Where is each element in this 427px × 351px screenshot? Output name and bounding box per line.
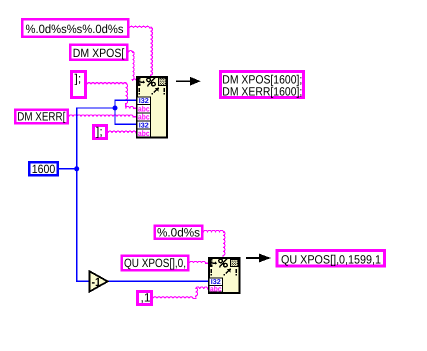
box border [155, 226, 203, 239]
svg-text:abc: abc [138, 129, 150, 138]
box border [22, 19, 128, 37]
wire: blue vertical at node [114, 100, 116, 125]
svg-text:abc: abc [210, 285, 222, 294]
U2 icon: diagonal resize arrow [223, 269, 231, 276]
svg-text:abc: abc [138, 113, 150, 122]
U2 icon: percent sign [219, 259, 227, 268]
wire: 1600 out [59, 168, 77, 170]
svg-text:%.0d%s: %.0d%s [157, 225, 200, 239]
wire: main vertical blue [76, 108, 78, 282]
U1 icon: document-with-arrow glyph [138, 78, 145, 86]
U1: terminal column [137, 97, 151, 137]
svg-text:QU XPOS[],0,1599,1: QU XPOS[],0,1599,1 [281, 253, 381, 267]
U2 icon: right exclamation [235, 269, 237, 276]
svg-text:%.0d%s%s%.0d%s: %.0d%s%s%.0d%s [26, 22, 124, 36]
box border [29, 162, 58, 175]
wire: %.0d%s to node top (vertical) [223, 231, 225, 257]
wire: DM XPOS out (horizontal) [129, 51, 135, 53]
svg-text:DM XPOS[: DM XPOS[ [73, 46, 125, 60]
wire: ];1 into abc terminal [126, 107, 137, 109]
result box border [221, 72, 304, 98]
U1 icon: percent sign [147, 78, 155, 87]
svg-text:DM XERR[: DM XERR[ [17, 110, 66, 124]
wire: into -1 triangle [76, 280, 90, 282]
wire: blue horizontal to upper node [76, 107, 115, 109]
arrow 1 (implies) [176, 80, 191, 82]
U2 icon: document-with-arrow glyph [210, 259, 217, 267]
wire: DM XPOS down (vertical) [132, 52, 134, 81]
wire junction dot at 1600 tee [74, 166, 79, 171]
wire: ];2 into abc terminal [108, 131, 137, 133]
box border [137, 291, 151, 304]
U2: terminal column [209, 278, 223, 292]
Format Into String node U1 (expanded) body [137, 77, 167, 138]
U1 icon: right exclamation [163, 88, 165, 95]
result box border [277, 251, 385, 267]
svg-text:QU XPOS[],0,: QU XPOS[],0, [124, 256, 186, 270]
wire: ,1 up (vertical) [196, 288, 198, 298]
box border [71, 71, 85, 97]
svg-text:];: ]; [96, 125, 103, 139]
wire: triangle out to lower node I32 [107, 280, 209, 282]
box border [93, 125, 106, 138]
negate/decrement triangle node "-1" [89, 271, 107, 292]
svg-text:-1: -1 [92, 275, 102, 289]
wire junction dot at upper tee [113, 106, 118, 111]
wire: %.0d%s out (horizontal) [204, 231, 226, 233]
svg-text:1600: 1600 [32, 162, 56, 176]
U1 icon: diagonal resize arrow [151, 88, 159, 95]
wire: DM XPOS into node left [133, 79, 138, 81]
svg-text:];: ]; [75, 72, 82, 86]
wire: into I32 terminal 1 [114, 99, 136, 101]
wire: ];1 out (horizontal) [87, 83, 127, 85]
wire: ];1 down (vertical) [126, 84, 128, 108]
U1 icon: left exclamation [139, 88, 141, 95]
wire: DM XERR into abc terminal [69, 115, 137, 117]
wire: QU XPOS into node left [190, 261, 210, 263]
wire: format string to node top (vertical) [151, 27, 153, 76]
wire: format string to node top (horizontal) [130, 26, 152, 28]
wire: ,1 out (horizontal) [153, 297, 197, 299]
svg-text:,1: ,1 [141, 291, 151, 305]
Format Into String node U2 (compact) body [209, 258, 240, 293]
U2 icon: dithered string square [230, 259, 238, 266]
svg-text:DM XERR[1600];: DM XERR[1600]; [222, 85, 302, 99]
wire: into I32 terminal 2 [114, 123, 136, 125]
box border [122, 256, 189, 271]
arrow 2 (implies) [246, 257, 260, 259]
box border [70, 45, 127, 60]
U1 icon: dithered string square [158, 78, 166, 85]
U2 icon: left exclamation [211, 269, 213, 276]
box border [15, 110, 68, 124]
wire: ,1 into abc terminal [196, 287, 209, 289]
